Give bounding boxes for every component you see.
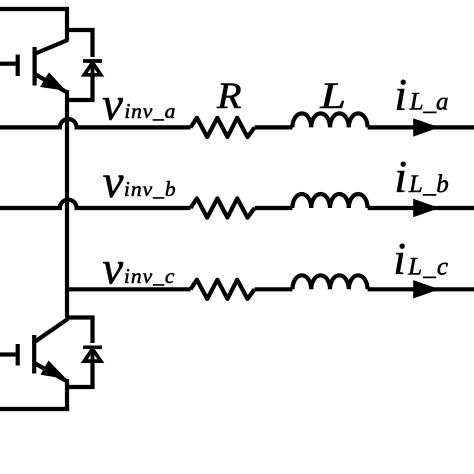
arrow current direction phase C <box>413 280 439 298</box>
diode D1 branch bottom wire <box>67 75 93 100</box>
Q1 emitter diagonal <box>36 75 68 93</box>
wire phase C right segment <box>368 287 474 291</box>
diode D2 <box>83 347 102 361</box>
svg-text:inv_c: inv_c <box>124 264 176 288</box>
label v_inv_b <box>103 156 177 208</box>
svg-text:L: L <box>319 76 346 117</box>
Q1 body bar <box>32 47 36 86</box>
label v_inv_c <box>102 243 175 295</box>
svg-text:inv_b: inv_b <box>124 177 177 201</box>
svg-text:v: v <box>103 156 124 208</box>
svg-text:L_b: L_b <box>408 171 449 198</box>
Q1 emitter arrow <box>40 72 66 91</box>
arrow current direction phase B <box>413 199 439 217</box>
Q2 gate bar <box>16 344 20 366</box>
Q2 emitter diagonal <box>35 364 67 382</box>
svg-text:i: i <box>394 151 407 202</box>
Q2 collector diagonal <box>35 319 68 342</box>
resistor R phase C <box>191 280 255 299</box>
resistor R phase B <box>191 198 255 217</box>
label i_L_c <box>393 233 449 284</box>
wire Q1 collector vertical <box>65 7 69 41</box>
diode D2 branch top wire <box>67 318 93 344</box>
diode D1 <box>83 61 102 75</box>
wire phase B left segment with crossover hop <box>0 200 191 208</box>
Q2 emitter arrow <box>41 361 67 380</box>
svg-text:i: i <box>393 233 406 284</box>
wire phase leg vertical (Q1 emitter to Q2 collector) <box>65 90 69 318</box>
label v_inv_a <box>102 79 176 131</box>
resistor R phase A <box>191 118 255 137</box>
svg-text:v: v <box>102 79 123 131</box>
Q1 gate bar <box>16 55 20 77</box>
label i_L_b <box>394 151 449 202</box>
wire phase C left segment from leg midpoint <box>67 287 191 291</box>
inductor L phase C <box>292 275 367 289</box>
diode D2 branch bottom wire <box>67 362 93 387</box>
label i_L_a <box>394 69 448 120</box>
transistor Q2 (bottom IGBT) <box>0 319 68 382</box>
svg-text:inv_a: inv_a <box>124 99 176 123</box>
diode D1 branch top wire <box>67 30 93 57</box>
inductor L phase B <box>292 194 367 208</box>
svg-text:v: v <box>102 243 123 295</box>
svg-text:i: i <box>394 69 407 120</box>
transistor Q1 (top IGBT) <box>0 40 68 93</box>
wire bottom DC rail <box>0 407 69 411</box>
wire phase B middle <box>255 206 293 210</box>
Q2 gate lead wire <box>0 352 16 356</box>
wire phase A right segment <box>368 125 474 129</box>
wire Q2 emitter vertical <box>65 379 69 409</box>
Q1 collector diagonal <box>36 40 69 54</box>
wire phase B right segment <box>368 206 474 210</box>
inductor L phase A <box>292 113 367 127</box>
svg-text:L_a: L_a <box>409 89 449 116</box>
wire top DC rail <box>0 7 67 11</box>
arrow current direction phase A <box>413 118 439 136</box>
wire phase A left segment with crossover hop <box>0 119 191 127</box>
Q2 body bar <box>32 335 36 374</box>
svg-text:L_c: L_c <box>407 253 449 280</box>
Q1 gate lead wire <box>0 62 16 66</box>
wire phase A middle <box>255 125 293 129</box>
svg-text:R: R <box>216 77 242 117</box>
wire phase C middle <box>255 287 293 291</box>
